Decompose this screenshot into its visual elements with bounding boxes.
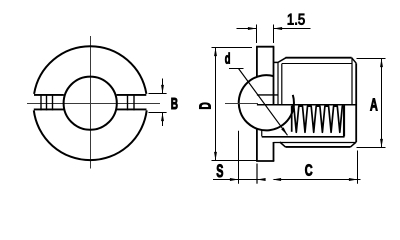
dimension d underline: [229, 68, 244, 70]
side view: body top-left chamfer: [278, 58, 286, 63]
dimension A arrow bottom: [380, 139, 383, 148]
dimension B line above: [162, 79, 164, 94]
dimension 1.5 arrow right: [274, 27, 283, 30]
dimension 1.5 line right: [274, 28, 311, 30]
dimension B extension line top: [149, 93, 167, 95]
svg-text:B: B: [171, 96, 178, 113]
dimension D extension line top: [212, 47, 253, 49]
side view: slot top edge across flange: [257, 94, 278, 96]
dimension S extension line (flange face): [256, 164, 258, 184]
dimension S extension line (ball apex): [238, 131, 240, 184]
side view: body front chamfer circle edge: [281, 64, 283, 105]
svg-text:1.5: 1.5: [287, 12, 305, 29]
side view: body top edge: [286, 57, 352, 59]
side view: body bottom-left chamfer: [280, 142, 286, 147]
dimension B arrow bottom: [161, 113, 164, 122]
side view: ball arc: [239, 75, 294, 130]
dimension D arrow top: [214, 48, 217, 57]
dimension A extension line top: [357, 58, 386, 60]
front view: slot hatch vertical left 2: [46, 94, 48, 110]
front view: ball circle: [64, 77, 117, 130]
front view: slot hatch vertical right 2: [133, 94, 135, 110]
side view: flange top edge: [256, 46, 274, 48]
front view: slot bottom edge left segment: [34, 108, 64, 110]
dimension B line below: [162, 113, 164, 127]
dimension 1.5 extension line left: [256, 25, 258, 44]
dimension S and C shared dimension line: [213, 179, 257, 181]
svg-text:A: A: [370, 95, 378, 115]
side view: spring coils: [292, 106, 344, 132]
dimension D extension line bottom: [212, 160, 257, 162]
side view: ball hole edge riser: [261, 130, 263, 137]
front view: slot top edge left segment: [34, 94, 64, 96]
front view: slot hatch vertical right 1: [127, 94, 129, 110]
side view: section boundary line: [257, 104, 356, 106]
front view: slot hatch vertical left 3: [52, 94, 54, 110]
front view: flange outer circle bottom arc: [34, 110, 147, 160]
dimension d leader arrowhead: [281, 127, 287, 135]
dimension C arrow right: [349, 178, 358, 181]
front view: centerline vertical: [90, 36, 92, 169]
side view: flange right edge upper (over ball): [273, 47, 275, 105]
side view: body top-right chamfer: [352, 58, 357, 64]
side view: spring right end coil: [343, 106, 345, 137]
dimension C line right tail: [358, 179, 361, 181]
side view: top-right chamfer edge vertical: [351, 58, 353, 105]
side view: spring cavity bottom line: [262, 136, 345, 138]
side view: body right end face: [355, 63, 357, 142]
side view: body front face edge: [277, 62, 279, 104]
side view: body bottom-right chamfer: [351, 142, 357, 147]
dimension C extension line right: [357, 151, 359, 184]
side view: ball interior mask: [239, 76, 294, 131]
dimension 1.5 line left: [237, 28, 257, 30]
dimension B extension line bottom: [149, 112, 167, 114]
dimension S arrow right: [257, 178, 266, 181]
side view: flange right edge lower: [273, 142, 275, 161]
svg-text:D: D: [197, 102, 214, 109]
side view: neck top line: [274, 61, 279, 63]
front view: slot hatch vertical left 1: [40, 94, 42, 110]
front view: slot top edge right segment: [117, 94, 147, 96]
side view: thread root line bottom with neck: [274, 142, 357, 144]
svg-text:d: d: [225, 51, 231, 68]
dimension B arrow top: [161, 85, 164, 94]
side view: spring cavity end wall: [344, 105, 346, 137]
side view: body bottom edge: [285, 146, 350, 148]
front view: flange outer circle top arc: [34, 46, 146, 94]
dimension A extension line bottom: [357, 147, 386, 149]
side view: flange bottom edge: [256, 160, 274, 162]
front view: centerline horizontal: [27, 103, 160, 105]
dimension C line: [274, 179, 358, 181]
svg-text:C: C: [305, 162, 313, 179]
dimension C arrow left: [273, 178, 282, 181]
dimension A arrow top: [380, 59, 383, 68]
side view: flange left edge: [256, 47, 258, 161]
side view: centerline: [225, 103, 258, 105]
dimension D arrow bottom: [214, 152, 217, 161]
dimension S arrow left: [230, 178, 239, 181]
dimension 1.5 arrow left: [248, 27, 257, 30]
dimension A line: [381, 59, 383, 148]
dimension D line: [215, 48, 217, 161]
dimension d leader line: [239, 69, 288, 136]
side view: thread root line top: [282, 63, 352, 65]
svg-text:S: S: [216, 161, 223, 181]
front view: slot bottom edge right segment: [117, 108, 147, 110]
side view: spring left end coil: [291, 106, 293, 132]
dimension 1.5 extension line right: [273, 25, 275, 44]
